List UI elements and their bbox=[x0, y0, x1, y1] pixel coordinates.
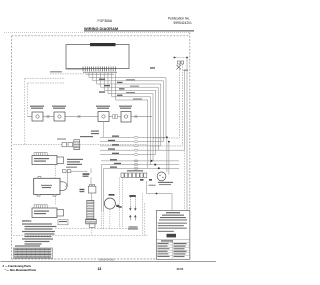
connector pair row1 c bbox=[113, 115, 115, 119]
dashed vertical chassis right bbox=[144, 203, 146, 235]
wire dashed drop left of board bbox=[142, 194, 144, 236]
svg-text:* — Non-Illustrated Parts: * — Non-Illustrated Parts bbox=[5, 268, 37, 272]
wire color labels on harness bbox=[126, 79, 135, 80]
wire valve bottom down bbox=[55, 196, 57, 205]
wire label near board bbox=[149, 185, 156, 186]
color code title bbox=[167, 234, 177, 238]
convection motor M1 bbox=[104, 198, 115, 209]
row2 labels bbox=[80, 136, 93, 137]
wire label to connector bbox=[90, 177, 92, 184]
svg-text:5995424201: 5995424201 bbox=[99, 257, 115, 261]
notes lines bbox=[15, 223, 57, 246]
EOC terminal comb pins P1-P13 bbox=[83, 67, 115, 72]
bake igniter connector plug bbox=[89, 184, 91, 186]
M2 label bbox=[158, 182, 173, 183]
spark module A labels bbox=[67, 159, 83, 160]
wire long horizontal bus 1 bbox=[101, 160, 179, 162]
spark gap table bbox=[14, 248, 53, 258]
terminal strip label bbox=[127, 170, 143, 171]
electrode labels bbox=[129, 226, 138, 227]
valve switch label bbox=[119, 106, 132, 107]
schematic border bottom bbox=[12, 258, 190, 260]
wire valve top to row above bbox=[55, 165, 57, 179]
electronic oven control label bar bbox=[90, 43, 116, 46]
spark module B bbox=[32, 205, 64, 218]
schematic border left bbox=[11, 36, 13, 259]
warmer element R1 hatched bbox=[74, 140, 80, 150]
wire labels below strip bbox=[140, 179, 144, 181]
connector box below module B bbox=[58, 220, 68, 225]
oven gas valve V1 bbox=[34, 178, 60, 194]
oven light switch label bbox=[30, 106, 44, 107]
connector pair row1 a bbox=[47, 115, 50, 118]
wire gauge labels scattered bbox=[99, 67, 155, 168]
dotted header rule bbox=[4, 31, 190, 33]
wire igniter up to bus bbox=[90, 168, 92, 173]
svg-text:31/03: 31/03 bbox=[177, 267, 184, 271]
power rail L2 bbox=[152, 64, 182, 146]
dashed chassis line lower bbox=[13, 234, 148, 236]
wire connector to igniter body bbox=[91, 193, 93, 200]
console outline dashed vertical A bbox=[24, 78, 26, 145]
junction dots on buses bbox=[151, 160, 153, 162]
electronic oven control U1 box bbox=[66, 45, 129, 69]
power rail N bbox=[158, 69, 184, 150]
gas valve tab bottom left bbox=[37, 194, 40, 196]
valve connector pair bbox=[63, 170, 67, 173]
wire label left fan bbox=[50, 71, 62, 72]
wire valve connector to igniter plug bbox=[71, 170, 87, 173]
wire M2 feed A bbox=[166, 137, 168, 172]
plug label bbox=[184, 70, 189, 71]
svg-text:# — Functioning Parts: # — Functioning Parts bbox=[3, 264, 32, 268]
wire harness EOC to right rails (8 runs) bbox=[89, 73, 166, 169]
dashed chassis line upper bbox=[55, 228, 130, 230]
schematic border top bbox=[12, 35, 190, 37]
top burner switch S2 bbox=[98, 112, 109, 122]
top burner valve switch S3 bbox=[121, 112, 131, 123]
row2 wire dashed bbox=[13, 144, 62, 146]
igniter bottom connector bbox=[89, 224, 95, 228]
junction label on drop bbox=[119, 206, 122, 208]
svg-text:NOTES:: NOTES: bbox=[22, 219, 32, 223]
oven lamp B1 bbox=[54, 112, 65, 121]
wire motor down bbox=[109, 209, 111, 229]
power plug P1 terminals bbox=[178, 61, 181, 64]
power supply arrow L1 bbox=[174, 57, 177, 59]
gas valve label bbox=[41, 185, 52, 186]
motor M1 label bbox=[109, 194, 115, 196]
wire igniter down bbox=[91, 227, 93, 235]
wire valve to connector bbox=[65, 173, 68, 187]
gas valve tab top bbox=[38, 177, 41, 179]
svg-text:5995424201: 5995424201 bbox=[174, 21, 193, 25]
row1 wire bbox=[28, 116, 153, 118]
wire M2 to board bbox=[147, 181, 173, 211]
svg-text:WIRING DIAGRAM: WIRING DIAGRAM bbox=[84, 26, 118, 31]
side label left of igniter bbox=[80, 189, 85, 190]
wire left from EOC to console bbox=[50, 73, 86, 75]
footer rule bbox=[1, 261, 217, 263]
connector ovals on ladder wires bbox=[134, 136, 138, 169]
bake igniter label bbox=[83, 173, 90, 175]
console outline dashed vertical B bbox=[27, 83, 29, 117]
junction dot bbox=[156, 193, 158, 195]
power rail ground run bbox=[186, 58, 188, 211]
svg-text:FGF366A: FGF366A bbox=[98, 19, 113, 23]
wire strip drops bbox=[119, 178, 121, 229]
rail N extension to board bbox=[183, 150, 185, 209]
title underline rule bbox=[84, 30, 194, 32]
schematic border right bbox=[189, 32, 191, 259]
parts / color code table bbox=[156, 211, 189, 260]
svg-text:13: 13 bbox=[98, 267, 102, 271]
row2 wire to rails bbox=[80, 144, 148, 146]
spark electrode pair E1 bbox=[129, 195, 136, 197]
bake igniter body hatched bbox=[87, 200, 94, 219]
wire M2 feed B bbox=[168, 142, 170, 175]
spark module A bbox=[32, 153, 64, 165]
svg-text:Publication No.: Publication No. bbox=[168, 16, 190, 20]
power rail L1 bbox=[152, 64, 179, 138]
connector pair row1 b bbox=[78, 115, 81, 118]
junction dot right of motor bbox=[116, 205, 119, 207]
bake igniter base bbox=[86, 219, 97, 224]
junction dot on N rail bbox=[186, 57, 188, 59]
fuse symbol F1 bbox=[177, 65, 182, 70]
oven lamp label bbox=[52, 106, 66, 107]
oven light switch S1 bbox=[32, 112, 43, 121]
broil igniter motor M2 circle bbox=[157, 172, 166, 181]
wire dashed to console edge A bbox=[25, 77, 65, 79]
wire comb stub left bbox=[66, 68, 87, 70]
valve connector label bbox=[66, 167, 77, 168]
spark gap arrows bbox=[129, 208, 132, 210]
top burner switch label bbox=[96, 106, 110, 107]
wire box S2 down bbox=[103, 122, 105, 138]
wire long horizontal bus 2 bbox=[102, 165, 180, 211]
terminal strip TB1 bbox=[121, 173, 147, 178]
wire dashed to console edge B bbox=[28, 82, 66, 84]
color code grid bbox=[156, 239, 189, 241]
gas valve tab bottom right bbox=[53, 194, 56, 196]
plug connector pair row2 bbox=[62, 142, 67, 146]
EOC terminal labels bbox=[83, 72, 117, 73]
wire long horizontal bus 3 bbox=[104, 168, 180, 211]
connector pair row1 d bbox=[135, 115, 138, 118]
gas valve bracket bbox=[60, 182, 67, 191]
